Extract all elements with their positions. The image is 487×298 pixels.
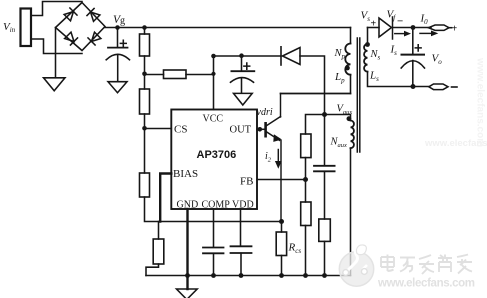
node rail R6 [303,273,308,278]
source Vin [21,9,32,47]
op-amp U1 AP3706 box [171,110,257,210]
resistor Rcs [281,222,283,233]
node rail C5 [239,273,244,278]
arrow i2 [277,150,279,163]
resistor R2 (horizontal startup) [145,74,164,76]
capacitor C2 (VCC) [241,56,243,71]
node Vg [115,25,120,30]
resistor R6 [301,202,311,226]
capacitor C3 [324,115,326,166]
capacitor C5 [231,245,252,247]
svg-text:VDD: VDD [232,200,254,211]
svg-text:BIAS: BIAS [173,168,198,180]
node primary phase dot [345,66,350,71]
svg-text:Vaux: Vaux [337,104,353,117]
node output top [411,25,416,30]
svg-text:Vo: Vo [432,53,443,67]
svg-text:Vf: Vf [387,9,397,23]
wire collector to primary [281,93,351,95]
wire VDD pin [240,209,242,246]
svg-text:+: + [452,24,458,35]
resistor R3 [140,89,150,114]
bridge diode D3 bottom-left [64,32,77,45]
svg-text:Naux: Naux [330,137,348,150]
transformer core [356,38,358,152]
svg-text:AP3706: AP3706 [197,149,237,161]
watermark logo [339,245,373,286]
svg-text:Vin: Vin [3,21,16,34]
wire VCC vertical [213,56,215,110]
svg-text:OUT: OUT [230,125,252,136]
svg-text:i2: i2 [265,151,272,164]
wire node to aux winding [325,115,351,121]
wire Vin bottom to bridge [31,39,82,54]
transistor Q1 [264,123,267,136]
diode D5 (VCC) [280,47,282,65]
node aux phase dot [347,116,352,121]
terminal - output [429,84,448,90]
svg-text:vdri: vdri [257,107,273,118]
wire COMP pin [213,209,215,247]
resistor R4 [140,173,150,197]
wire BIAS [160,174,171,222]
svg-text:Vs: Vs [361,10,371,24]
ground rail [146,275,351,277]
svg-text:GND: GND [177,200,199,211]
arrow Is [395,33,405,35]
node R2-VCC junction [211,72,215,76]
node rail C4 [211,273,216,278]
ground (C1) [108,82,127,93]
wire secondary top to diode [368,27,380,29]
wire FB [257,179,306,181]
svg-text:Lp: Lp [334,71,345,85]
node C2 [239,53,244,58]
wire node to R5 [306,115,325,135]
winding Np primary [350,28,352,44]
svg-text:Ns: Ns [370,49,381,62]
node emitter-wire [279,219,284,224]
resistor R1 [144,28,146,35]
capacitor C6 output [412,28,414,55]
resistor R5 [301,134,311,158]
wire OUT pin [257,128,265,130]
svg-text:−: − [397,16,403,28]
svg-text:CS: CS [174,124,187,136]
wire bridge left vertex to ground [55,28,57,78]
bridge diode D4 bottom-right [88,32,101,45]
svg-text:www.elecfans.com: www.elecfans.com [377,278,475,290]
ground (main) [177,289,198,298]
svg-text:g: g [120,16,125,27]
node CS [142,126,147,131]
winding Ns secondary [367,28,369,45]
svg-text:I0: I0 [420,13,429,27]
bridge diode D1 top-left [64,8,77,21]
svg-text:Np: Np [334,48,346,61]
svg-text:Ls: Ls [369,70,379,84]
capacitor C1 (Vg bulk) [117,28,119,48]
ground (C2) [234,93,253,105]
resistor R7 [319,219,331,241]
svg-text:COMP: COMP [202,200,231,211]
svg-text:www.elecfans.com: www.elecfans.com [475,57,486,147]
wire Vin top to bridge [31,2,82,16]
wire aux bottom to rail [350,148,352,275]
wire diode D5 anode [214,55,282,57]
bridge rectifier diamond [56,3,106,51]
arrow I0 [420,32,432,34]
capacitor C4 [203,247,224,249]
node output cap bottom [411,84,416,89]
node rail R7 [322,273,327,278]
bridge diode D2 top-right [87,8,100,21]
node rail-R1 [142,25,147,30]
winding Naux [351,121,354,149]
node rail GND [185,273,190,278]
wire CS [145,128,172,130]
terminal + output [429,25,450,30]
node FB [303,177,308,182]
node OUT [258,127,263,132]
svg-text:VCC: VCC [203,114,224,125]
watermark chinese [381,255,472,275]
resistor R8 [158,222,160,240]
wire top rail Vg [105,27,351,29]
node R1-R2 [142,72,147,77]
svg-text:FB: FB [240,176,253,188]
wire GND pin [186,209,188,289]
wire diode to + terminal [393,27,432,29]
wire secondary bottom [368,72,430,87]
svg-text:+: + [371,19,377,30]
node rail Rcs [279,273,284,278]
node Vaux [322,112,327,117]
svg-text:Rcs: Rcs [288,242,302,256]
diode D6 output [379,18,392,37]
ground (bridge) [44,78,66,91]
node VCC-diode [211,54,216,59]
svg-text:Is: Is [390,44,398,58]
